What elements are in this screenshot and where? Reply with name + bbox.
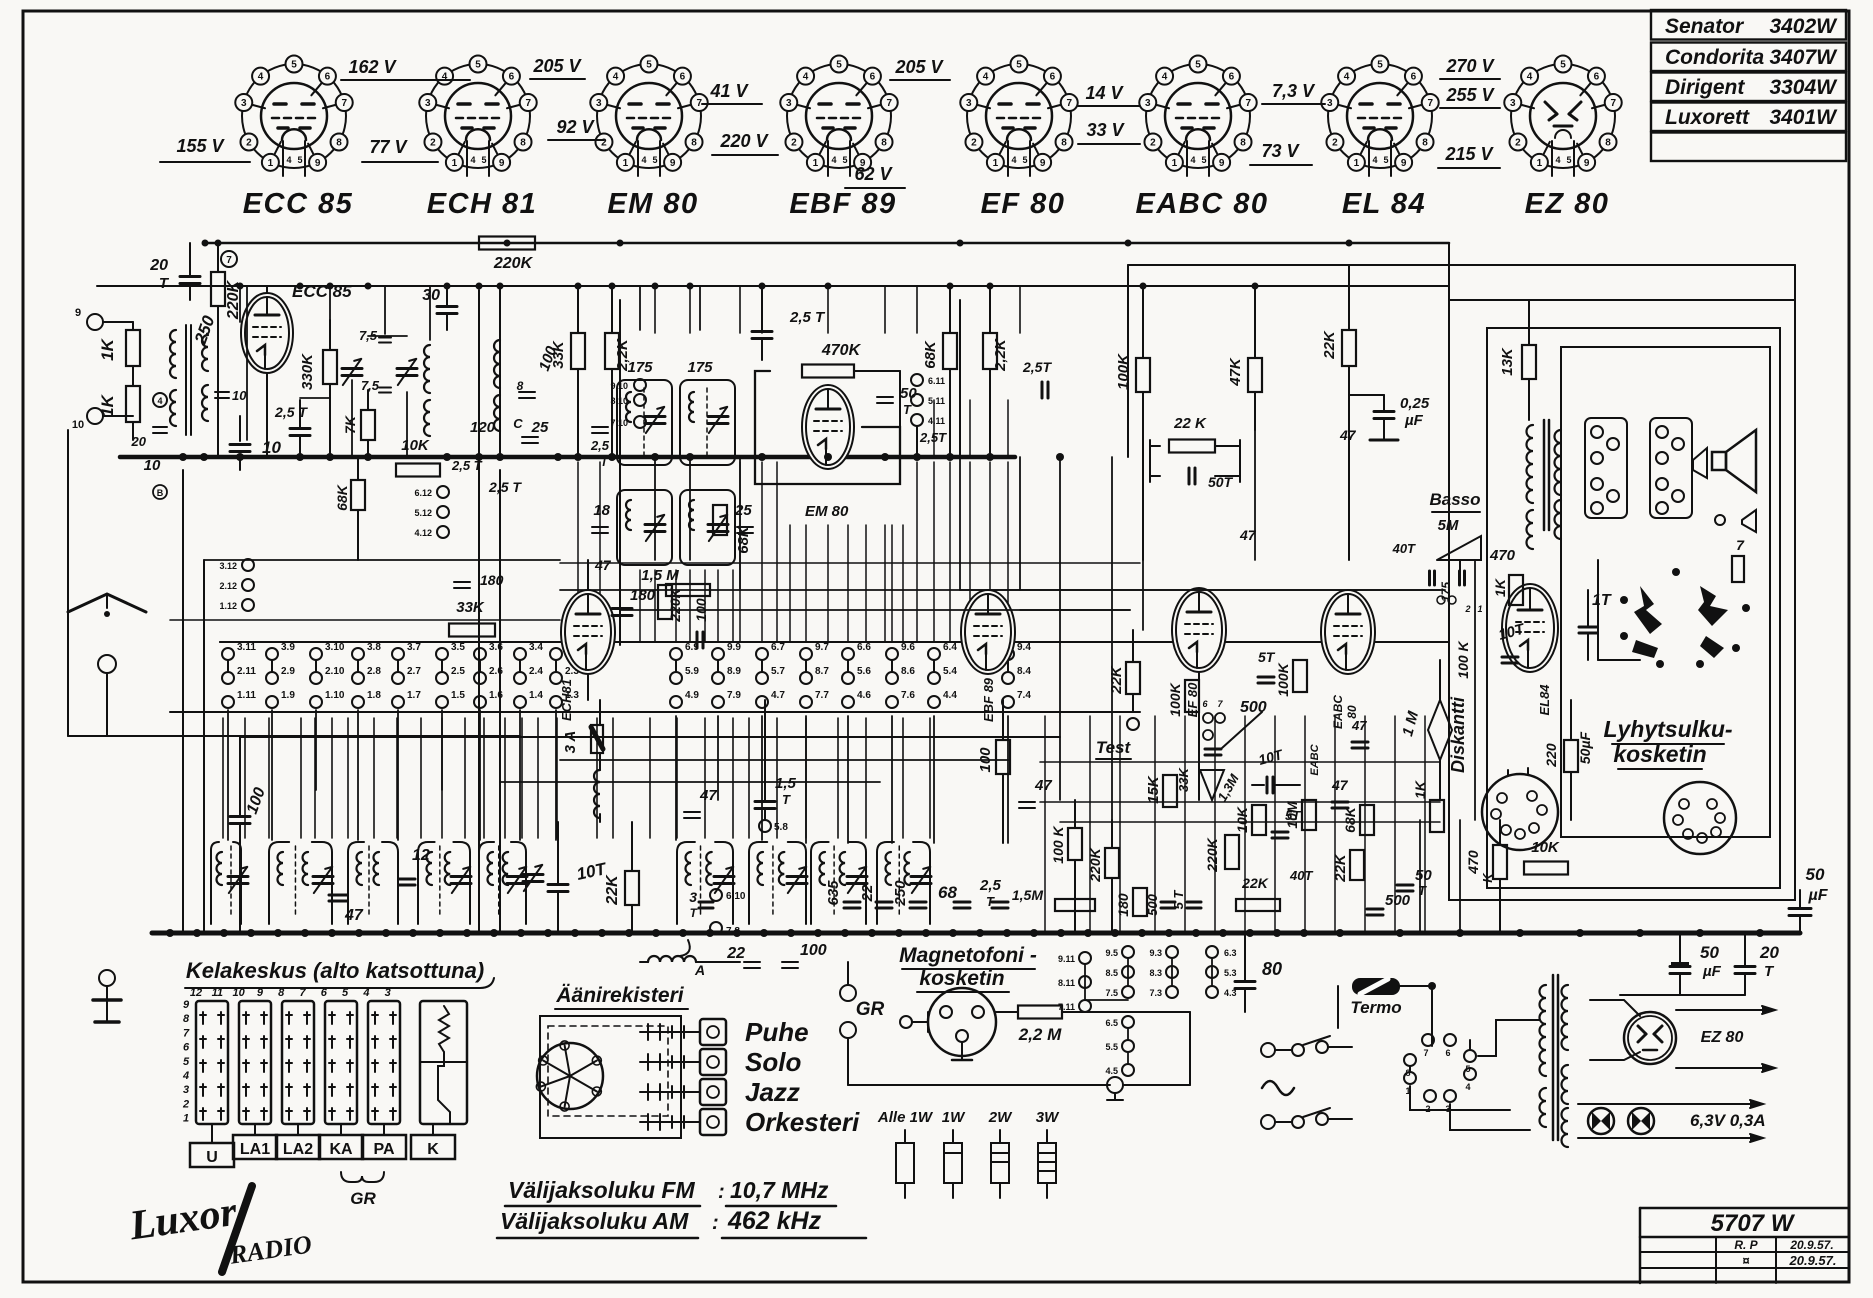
svg-text:Test: Test xyxy=(1096,738,1132,757)
svg-text:6: 6 xyxy=(1594,72,1600,83)
svg-text:2,5 T: 2,5 T xyxy=(789,309,826,326)
svg-text:18: 18 xyxy=(593,502,610,519)
svg-text::: : xyxy=(712,1212,719,1234)
svg-text:47: 47 xyxy=(1339,427,1357,443)
svg-text:3: 3 xyxy=(1510,98,1516,109)
svg-text:8: 8 xyxy=(336,138,342,149)
svg-text:250: 250 xyxy=(892,880,909,907)
svg-text:2,5T: 2,5T xyxy=(919,430,947,445)
svg-text:41 V: 41 V xyxy=(709,81,749,101)
svg-text:3: 3 xyxy=(241,98,247,109)
svg-text:T: T xyxy=(782,792,791,807)
svg-text:Luxorett: Luxorett xyxy=(1665,106,1750,129)
svg-text:4: 4 xyxy=(613,72,619,83)
svg-text:5: 5 xyxy=(1016,60,1022,71)
svg-text:6: 6 xyxy=(680,72,686,83)
svg-text:50: 50 xyxy=(1806,865,1825,884)
svg-text:20: 20 xyxy=(131,434,147,449)
svg-text:205 V: 205 V xyxy=(894,57,944,77)
svg-text:270 V: 270 V xyxy=(1445,56,1495,76)
svg-text:2,5 T: 2,5 T xyxy=(488,479,522,495)
svg-text:20.9.57.: 20.9.57. xyxy=(1789,1238,1833,1252)
svg-text:2: 2 xyxy=(430,138,436,149)
svg-text:8.10: 8.10 xyxy=(610,396,628,406)
svg-text:470K: 470K xyxy=(821,342,862,359)
svg-text:1.12: 1.12 xyxy=(219,601,237,611)
svg-text:5.8: 5.8 xyxy=(774,822,788,833)
svg-text:4: 4 xyxy=(1465,1082,1470,1092)
svg-text:8.3: 8.3 xyxy=(1149,968,1162,978)
svg-text:3: 3 xyxy=(1145,98,1151,109)
svg-text:2W: 2W xyxy=(988,1109,1013,1126)
svg-text:10M: 10M xyxy=(1284,801,1300,829)
svg-text:6.6: 6.6 xyxy=(857,642,871,653)
svg-text:7,3 V: 7,3 V xyxy=(1272,81,1316,101)
svg-text:2.11: 2.11 xyxy=(237,666,256,677)
svg-text:¤: ¤ xyxy=(1742,1253,1749,1268)
svg-text:4: 4 xyxy=(157,396,162,406)
svg-text:7.6: 7.6 xyxy=(901,690,915,701)
svg-text:6.12: 6.12 xyxy=(414,488,432,498)
svg-text:4.5: 4.5 xyxy=(1105,1066,1118,1076)
svg-text:2.7: 2.7 xyxy=(407,666,421,677)
svg-text:KA: KA xyxy=(329,1141,353,1158)
svg-text:7: 7 xyxy=(226,255,232,266)
svg-text:EBF 89: EBF 89 xyxy=(981,677,996,722)
svg-text:3 A: 3 A xyxy=(562,731,579,754)
svg-text:33K: 33K xyxy=(1176,766,1191,791)
svg-text:6: 6 xyxy=(183,1042,190,1054)
svg-text:1: 1 xyxy=(452,158,458,169)
svg-text:3W: 3W xyxy=(1036,1109,1060,1126)
svg-text:47: 47 xyxy=(1034,777,1052,794)
svg-text:7: 7 xyxy=(1423,1048,1428,1058)
svg-text:47: 47 xyxy=(1331,777,1349,793)
svg-text:7: 7 xyxy=(1066,98,1072,109)
svg-text:22: 22 xyxy=(859,884,876,902)
svg-text:6.4: 6.4 xyxy=(943,642,957,653)
svg-text:T: T xyxy=(903,402,912,417)
svg-text:3401W: 3401W xyxy=(1769,106,1838,129)
svg-text:kosketin: kosketin xyxy=(1613,741,1706,767)
svg-text:3.7: 3.7 xyxy=(407,642,421,653)
svg-text:3402W: 3402W xyxy=(1769,15,1838,38)
svg-text:3.8: 3.8 xyxy=(367,642,381,653)
svg-text:2: 2 xyxy=(1150,138,1156,149)
svg-text:2,5: 2,5 xyxy=(979,877,1002,894)
svg-text:4.11: 4.11 xyxy=(928,416,945,426)
svg-text:68K: 68K xyxy=(735,525,752,554)
svg-text:3: 3 xyxy=(786,98,792,109)
svg-text:10: 10 xyxy=(232,987,245,999)
svg-text:1.8: 1.8 xyxy=(367,690,381,701)
svg-text:4: 4 xyxy=(362,987,369,999)
svg-text:8: 8 xyxy=(517,379,524,393)
svg-text:5: 5 xyxy=(342,987,349,999)
svg-text:2,2 M: 2,2 M xyxy=(1018,1025,1062,1044)
svg-text:2: 2 xyxy=(1464,604,1470,614)
svg-text:1: 1 xyxy=(813,158,819,169)
svg-text:5: 5 xyxy=(652,155,657,165)
svg-text:Välijaksoluku AM: Välijaksoluku AM xyxy=(500,1208,689,1234)
svg-text:5: 5 xyxy=(1022,155,1027,165)
svg-text:R. P: R. P xyxy=(1734,1238,1758,1252)
svg-text:4: 4 xyxy=(1190,155,1195,165)
svg-text:9: 9 xyxy=(183,999,190,1011)
svg-text:Äänirekisteri: Äänirekisteri xyxy=(555,984,684,1007)
svg-text:2.12: 2.12 xyxy=(219,581,237,591)
svg-text:12: 12 xyxy=(190,987,202,999)
svg-text:220: 220 xyxy=(1543,743,1559,768)
svg-text:3: 3 xyxy=(385,987,391,999)
svg-text:7: 7 xyxy=(341,98,347,109)
svg-text:EBF 89: EBF 89 xyxy=(789,188,896,220)
svg-text:EM 80: EM 80 xyxy=(607,188,698,220)
svg-text:2,5 T: 2,5 T xyxy=(274,404,308,420)
svg-text:20.9.57.: 20.9.57. xyxy=(1789,1253,1837,1268)
svg-text:5: 5 xyxy=(1377,60,1383,71)
svg-text:5: 5 xyxy=(291,60,297,71)
svg-text:7.9: 7.9 xyxy=(727,690,741,701)
svg-text:8.11: 8.11 xyxy=(1058,978,1075,988)
svg-text:8.6: 8.6 xyxy=(901,666,915,677)
svg-text:3407W: 3407W xyxy=(1769,46,1838,69)
svg-text:6: 6 xyxy=(1229,72,1235,83)
svg-text:9: 9 xyxy=(1401,158,1407,169)
svg-text:22: 22 xyxy=(726,945,745,962)
svg-text:4: 4 xyxy=(1344,72,1350,83)
svg-text:6.11: 6.11 xyxy=(928,376,945,386)
svg-text:1.9: 1.9 xyxy=(281,690,295,701)
svg-text:50µF: 50µF xyxy=(1577,731,1593,764)
svg-text:9: 9 xyxy=(1040,158,1046,169)
svg-text:Puhe: Puhe xyxy=(745,1017,809,1047)
svg-text:4: 4 xyxy=(286,155,291,165)
svg-text:8: 8 xyxy=(1240,138,1246,149)
svg-text:50: 50 xyxy=(1700,943,1719,962)
svg-text:2.8: 2.8 xyxy=(367,666,381,677)
svg-text:15K: 15K xyxy=(1145,775,1162,804)
svg-text:ECH 81: ECH 81 xyxy=(427,188,538,220)
svg-text:5707 W: 5707 W xyxy=(1711,1210,1796,1237)
svg-text:10: 10 xyxy=(232,388,247,403)
svg-text:13K: 13K xyxy=(1499,347,1516,376)
svg-text:1K: 1K xyxy=(98,337,117,360)
svg-text:4.7: 4.7 xyxy=(771,690,785,701)
svg-text:6.5: 6.5 xyxy=(1105,1018,1118,1028)
svg-text:635: 635 xyxy=(825,880,842,906)
svg-text:92 V: 92 V xyxy=(556,117,595,137)
svg-text:Solo: Solo xyxy=(745,1047,801,1077)
svg-text::: : xyxy=(718,1181,725,1203)
svg-text:5: 5 xyxy=(475,60,481,71)
svg-text:4.6: 4.6 xyxy=(857,690,871,701)
svg-text:K: K xyxy=(427,1141,439,1158)
svg-text:7: 7 xyxy=(886,98,892,109)
svg-text:3.5: 3.5 xyxy=(451,642,465,653)
svg-text:62 V: 62 V xyxy=(854,164,893,184)
svg-text:10: 10 xyxy=(144,457,161,474)
svg-text:2,5: 2,5 xyxy=(590,438,610,453)
svg-text:2: 2 xyxy=(182,1098,189,1110)
svg-text:33 V: 33 V xyxy=(1086,120,1125,140)
svg-text:11: 11 xyxy=(212,987,223,999)
svg-text:100 K: 100 K xyxy=(1455,640,1471,678)
svg-text:Senator: Senator xyxy=(1665,15,1745,38)
svg-text:68K: 68K xyxy=(1342,806,1358,833)
svg-text:80: 80 xyxy=(1345,705,1359,719)
svg-text:500: 500 xyxy=(1240,699,1267,716)
svg-text:470: 470 xyxy=(1465,850,1481,875)
svg-text:2.10: 2.10 xyxy=(325,666,345,677)
svg-text:9.3: 9.3 xyxy=(1149,948,1162,958)
svg-text:3: 3 xyxy=(425,98,431,109)
svg-text:1,5: 1,5 xyxy=(775,775,797,792)
svg-text:1: 1 xyxy=(993,158,999,169)
svg-text:1: 1 xyxy=(623,158,629,169)
svg-text:Lyhytsulku-: Lyhytsulku- xyxy=(1603,716,1732,742)
svg-text:8: 8 xyxy=(691,138,697,149)
svg-text:5T: 5T xyxy=(1258,649,1276,665)
svg-text:7.10: 7.10 xyxy=(610,418,628,428)
svg-text:180: 180 xyxy=(480,572,504,588)
svg-text:kosketin: kosketin xyxy=(919,967,1004,990)
svg-text:8: 8 xyxy=(1605,138,1611,149)
svg-text:EABC: EABC xyxy=(1331,695,1345,729)
svg-text:7: 7 xyxy=(1736,537,1745,553)
svg-text:7.5: 7.5 xyxy=(1105,988,1118,998)
svg-text:20: 20 xyxy=(149,257,168,274)
svg-text:9.5: 9.5 xyxy=(1105,948,1118,958)
svg-text:LA1: LA1 xyxy=(240,1141,270,1158)
svg-text:180: 180 xyxy=(1115,893,1131,917)
svg-text:9: 9 xyxy=(257,987,264,999)
svg-text:5: 5 xyxy=(481,155,486,165)
svg-text:9.11: 9.11 xyxy=(1058,954,1075,964)
svg-text:Dirigent: Dirigent xyxy=(1665,76,1745,99)
svg-text:Termo: Termo xyxy=(1350,998,1401,1017)
svg-text:7.11: 7.11 xyxy=(1058,1002,1075,1012)
svg-text:9: 9 xyxy=(499,158,505,169)
svg-text:8.4: 8.4 xyxy=(1017,666,1031,677)
svg-text:3: 3 xyxy=(183,1084,189,1096)
svg-text:8: 8 xyxy=(183,1013,190,1025)
svg-text:220K: 220K xyxy=(1204,837,1220,872)
svg-text:162 V: 162 V xyxy=(348,57,397,77)
svg-text:3: 3 xyxy=(596,98,602,109)
svg-text:2: 2 xyxy=(1515,138,1521,149)
svg-text:Diskantti: Diskantti xyxy=(1448,696,1468,773)
svg-text:1: 1 xyxy=(1354,158,1360,169)
svg-text:30: 30 xyxy=(422,287,440,304)
svg-text:EZ 80: EZ 80 xyxy=(1525,188,1610,220)
svg-text:5: 5 xyxy=(183,1056,190,1068)
svg-text:Condorita: Condorita xyxy=(1665,46,1764,69)
svg-text:22K: 22K xyxy=(604,874,621,906)
svg-text:1K: 1K xyxy=(98,393,117,416)
svg-text:2,5T: 2,5T xyxy=(1022,359,1052,375)
svg-text:GR: GR xyxy=(350,1189,376,1208)
svg-text:EL84: EL84 xyxy=(1537,684,1552,716)
svg-text:9: 9 xyxy=(1219,158,1225,169)
svg-text:5.7: 5.7 xyxy=(771,666,785,677)
svg-text:68: 68 xyxy=(938,883,957,902)
svg-text:2.9: 2.9 xyxy=(281,666,295,677)
svg-text:7: 7 xyxy=(299,987,306,999)
svg-text:205 V: 205 V xyxy=(532,56,582,76)
svg-text:8: 8 xyxy=(520,138,526,149)
svg-text:462 kHz: 462 kHz xyxy=(727,1207,822,1235)
svg-text:5.3: 5.3 xyxy=(1224,968,1237,978)
svg-text:1: 1 xyxy=(1477,604,1482,614)
svg-text:2: 2 xyxy=(1332,138,1338,149)
svg-text:8: 8 xyxy=(1422,138,1428,149)
svg-text:9.7: 9.7 xyxy=(815,642,829,653)
svg-text:5: 5 xyxy=(1566,155,1571,165)
svg-text:4: 4 xyxy=(470,155,475,165)
svg-text:77 V: 77 V xyxy=(369,137,408,157)
svg-text:5: 5 xyxy=(646,60,652,71)
svg-text:1.7: 1.7 xyxy=(407,690,421,701)
svg-text:7.7: 7.7 xyxy=(815,690,829,701)
svg-text:47: 47 xyxy=(594,557,612,573)
svg-text:120: 120 xyxy=(470,419,496,436)
svg-text:4: 4 xyxy=(803,72,809,83)
svg-text:33K: 33K xyxy=(550,340,567,369)
svg-text:4: 4 xyxy=(1372,155,1377,165)
svg-text:40T: 40T xyxy=(1392,541,1416,556)
svg-text:LA2: LA2 xyxy=(283,1141,313,1158)
svg-text:A: A xyxy=(694,962,705,978)
svg-text:2,2K: 2,2K xyxy=(992,338,1009,372)
svg-text:7,5: 7,5 xyxy=(361,378,380,393)
svg-text:47: 47 xyxy=(344,907,364,924)
svg-text:1.6: 1.6 xyxy=(489,690,503,701)
svg-text:215 V: 215 V xyxy=(1444,144,1494,164)
svg-text:9: 9 xyxy=(75,307,81,319)
svg-text:5: 5 xyxy=(1195,60,1201,71)
svg-text:500: 500 xyxy=(1145,893,1160,915)
svg-text:µF: µF xyxy=(1404,412,1424,429)
svg-text:68K: 68K xyxy=(922,340,939,369)
svg-text:8.7: 8.7 xyxy=(815,666,829,677)
svg-text:8: 8 xyxy=(1061,138,1067,149)
svg-text:2.5: 2.5 xyxy=(451,666,465,677)
svg-text:2.6: 2.6 xyxy=(489,666,503,677)
svg-text:6,3V 0,3A: 6,3V 0,3A xyxy=(1690,1111,1766,1130)
svg-text:9.6: 9.6 xyxy=(901,642,915,653)
svg-text:B: B xyxy=(157,488,164,498)
svg-text:3.12: 3.12 xyxy=(219,561,237,571)
svg-text:U: U xyxy=(206,1149,218,1166)
svg-text:73 V: 73 V xyxy=(1261,141,1300,161)
svg-text:5.4: 5.4 xyxy=(943,666,957,677)
svg-text:10K: 10K xyxy=(1531,839,1560,856)
svg-text:100K: 100K xyxy=(1167,682,1183,716)
svg-text:3.9: 3.9 xyxy=(281,642,295,653)
svg-text:50: 50 xyxy=(1415,867,1432,884)
svg-text:175: 175 xyxy=(627,359,653,376)
svg-text:1W: 1W xyxy=(942,1109,966,1126)
svg-text:9.10: 9.10 xyxy=(610,381,628,391)
svg-text:5: 5 xyxy=(1383,155,1388,165)
svg-text:6: 6 xyxy=(1445,1048,1450,1058)
svg-text:33K: 33K xyxy=(456,599,485,616)
svg-text:220 V: 220 V xyxy=(719,131,769,151)
svg-text:6: 6 xyxy=(325,72,331,83)
svg-text:5: 5 xyxy=(836,60,842,71)
svg-text:6.10: 6.10 xyxy=(726,891,746,902)
svg-text:47: 47 xyxy=(699,787,717,804)
svg-text:Orkesteri: Orkesteri xyxy=(745,1107,860,1137)
svg-text:5: 5 xyxy=(297,155,302,165)
svg-text:4: 4 xyxy=(641,155,646,165)
svg-text:6: 6 xyxy=(509,72,515,83)
svg-text:100K: 100K xyxy=(1275,662,1291,696)
svg-text:8.5: 8.5 xyxy=(1105,968,1118,978)
svg-text:4: 4 xyxy=(831,155,836,165)
svg-text:1,5 M: 1,5 M xyxy=(641,567,679,584)
svg-text:3304W: 3304W xyxy=(1769,76,1838,99)
svg-text:C: C xyxy=(513,416,523,431)
svg-text:EF 80: EF 80 xyxy=(981,188,1066,220)
svg-text:220K: 220K xyxy=(667,587,683,622)
svg-text:6: 6 xyxy=(870,72,876,83)
svg-text:22 K: 22 K xyxy=(1173,415,1207,432)
svg-text:4: 4 xyxy=(258,72,264,83)
svg-text:7: 7 xyxy=(1245,98,1251,109)
svg-text:4.12: 4.12 xyxy=(414,528,432,538)
svg-text:7: 7 xyxy=(1610,98,1616,109)
svg-text:µF: µF xyxy=(1702,963,1722,980)
svg-text:9.4: 9.4 xyxy=(1017,642,1031,653)
svg-text:1.4: 1.4 xyxy=(529,690,543,701)
svg-text:EL 84: EL 84 xyxy=(1342,188,1426,220)
svg-text:3: 3 xyxy=(689,889,697,905)
svg-text:10K: 10K xyxy=(401,437,430,454)
svg-text:EABC: EABC xyxy=(1309,743,1321,775)
svg-text:4: 4 xyxy=(1527,72,1533,83)
svg-text:5 T: 5 T xyxy=(1171,890,1186,910)
svg-text:GR: GR xyxy=(856,999,885,1020)
svg-text:5: 5 xyxy=(842,155,847,165)
svg-text:5.12: 5.12 xyxy=(414,508,432,518)
svg-text:7K: 7K xyxy=(342,415,358,434)
svg-text:Magnetofoni -: Magnetofoni - xyxy=(899,944,1037,967)
svg-text:9: 9 xyxy=(315,158,321,169)
svg-text:4: 4 xyxy=(983,72,989,83)
svg-text:3: 3 xyxy=(1327,98,1333,109)
svg-text:2: 2 xyxy=(791,138,797,149)
svg-text:3.10: 3.10 xyxy=(325,642,345,653)
svg-text:3: 3 xyxy=(966,98,972,109)
svg-text:Alle 1W: Alle 1W xyxy=(877,1109,934,1126)
svg-text:Basso: Basso xyxy=(1429,490,1480,509)
svg-text:4.9: 4.9 xyxy=(685,690,699,701)
svg-text:68K: 68K xyxy=(334,484,350,511)
svg-text:EZ 80: EZ 80 xyxy=(1701,1029,1744,1046)
svg-text:500: 500 xyxy=(1385,892,1411,909)
svg-text:7.4: 7.4 xyxy=(1017,690,1031,701)
svg-text:ECC 85: ECC 85 xyxy=(243,188,354,220)
svg-text:80: 80 xyxy=(1262,959,1282,979)
svg-text:3.6: 3.6 xyxy=(489,642,503,653)
svg-text:7.3: 7.3 xyxy=(1149,988,1162,998)
svg-text:1T: 1T xyxy=(1592,592,1612,609)
svg-text:10: 10 xyxy=(72,419,84,431)
svg-text:8: 8 xyxy=(278,987,285,999)
svg-text:22K: 22K xyxy=(1108,665,1125,695)
